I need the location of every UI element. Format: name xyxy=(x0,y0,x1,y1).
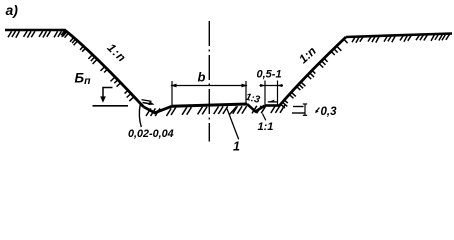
berm level line xyxy=(93,105,129,107)
hatch ticks slope right xyxy=(281,39,348,108)
ground surface right xyxy=(346,34,452,38)
svg-text:1:1: 1:1 xyxy=(258,121,274,133)
dim b line xyxy=(171,85,247,87)
callout leader 1 xyxy=(227,109,239,140)
ground surface left xyxy=(5,30,67,32)
svg-text:а): а) xyxy=(6,2,19,18)
ditch V right xyxy=(247,104,265,112)
slope right 1:n xyxy=(280,37,347,106)
canal bottom xyxy=(172,104,247,106)
dim 0,5-1 line with inward arrows xyxy=(260,85,284,87)
hatching ground left xyxy=(8,31,65,38)
leader 1:1 xyxy=(262,114,265,121)
small arrow before 0,3 xyxy=(316,108,319,112)
svg-text:0,02-0,04: 0,02-0,04 xyxy=(128,128,174,140)
dim b extension lines xyxy=(171,81,173,106)
dim 0,5-1 extension lines xyxy=(264,81,266,105)
berm arrow symbol xyxy=(103,88,113,98)
shelf xyxy=(265,104,279,107)
svg-text:b: b xyxy=(198,70,206,85)
dim 0,3 vertical xyxy=(304,104,306,116)
gradient marker left xyxy=(142,100,152,102)
hatch ticks slope left xyxy=(61,30,134,101)
hatching ground right xyxy=(352,34,450,43)
hatching under bottom xyxy=(146,105,285,116)
toe ditch left xyxy=(144,106,173,113)
svg-text:0,5-1: 0,5-1 xyxy=(257,69,282,81)
leader 0,02-0,04 xyxy=(139,105,141,128)
gradient marker shelf xyxy=(268,101,278,103)
axis center line xyxy=(208,21,210,142)
svg-text:1: 1 xyxy=(233,140,240,154)
slope left 1:n xyxy=(64,30,144,107)
svg-text:0,3: 0,3 xyxy=(321,106,338,118)
dim 0,3 ticks xyxy=(293,106,304,108)
